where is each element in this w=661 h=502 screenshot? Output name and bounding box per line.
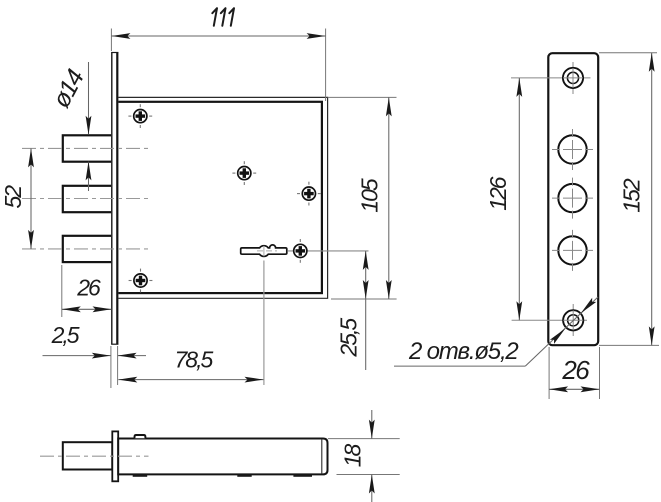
DIMENSION 126	[485, 78, 522, 320]
latch bump (bottom view)	[135, 435, 146, 438]
DIMENSION 152	[599, 53, 659, 346]
screw S2 center	[232, 161, 256, 185]
faceplate tab (bottom view)	[112, 431, 118, 481]
svg-text:18: 18	[340, 444, 366, 468]
keyhole slot centerline horizontal	[288, 250, 369, 252]
DIMENSION d14	[47, 62, 91, 191]
DIMENSION 2,5	[43, 322, 147, 388]
screw S4 near slot	[294, 239, 307, 263]
bolt (bottom view)	[63, 442, 113, 469]
DIMENSION 52	[0, 148, 34, 249]
svg-text:126: 126	[485, 176, 511, 211]
svg-text:2,5: 2,5	[51, 322, 80, 348]
bolt 3	[63, 236, 112, 262]
svg-text:152: 152	[619, 178, 645, 213]
bolt hole 2	[552, 178, 593, 219]
screw hole top	[563, 68, 583, 88]
bolt 3 centerline	[22, 248, 150, 250]
svg-text:105: 105	[357, 178, 383, 213]
DIMENSION 105	[328, 97, 397, 299]
bolt 1	[63, 135, 112, 161]
lock case cover (outer thin outline)	[117, 97, 327, 298]
faceplate edge strip	[111, 52, 118, 344]
screw hole top crosshair	[511, 62, 591, 94]
faceplate	[548, 53, 598, 345]
BOTTOM VIEW	[40, 431, 328, 481]
screw S5 bottom-left	[129, 269, 153, 293]
DIMENSION 26 plate	[549, 347, 599, 399]
CALLOUT 2 holes d5,2	[394, 297, 598, 366]
svg-text:78,5: 78,5	[175, 347, 214, 373]
keyhole slot	[241, 245, 287, 257]
screw hole bottom	[563, 310, 583, 330]
bolt centerline (bottom view)	[40, 455, 149, 457]
svg-text:52: 52	[0, 185, 26, 209]
svg-text:2 отв.ø5,2: 2 отв.ø5,2	[408, 338, 518, 365]
DIMENSION 111	[111, 8, 325, 101]
DIMENSION 78,5	[118, 347, 263, 383]
screw S1 top-left	[128, 104, 152, 128]
lock case strip (bottom view)	[118, 439, 327, 475]
foot tab 2	[237, 475, 251, 477]
bolt 2 centerline	[22, 198, 150, 200]
DIMENSION 25,5	[335, 251, 368, 370]
keyhole slot centerline vertical	[263, 261, 265, 386]
foot tab 1	[133, 475, 148, 477]
lock case body (thick outline)	[117, 102, 322, 293]
bolt 1 centerline	[22, 147, 150, 149]
screw S3 right	[297, 182, 321, 206]
bolt hole 3	[552, 230, 593, 271]
svg-text:26: 26	[76, 275, 101, 301]
screw hole bottom crosshair	[512, 304, 587, 336]
foot tab 3	[293, 475, 312, 477]
DIMENSION 18	[328, 410, 400, 502]
FRONT VIEW	[22, 52, 369, 385]
bolt 2	[63, 186, 112, 212]
bolt hole 1	[552, 129, 593, 170]
FACEPLATE FRONT VIEW	[511, 53, 598, 345]
DIMENSION 26 bolt	[62, 265, 112, 317]
svg-text:26: 26	[561, 355, 590, 385]
svg-text:25,5: 25,5	[335, 318, 361, 358]
